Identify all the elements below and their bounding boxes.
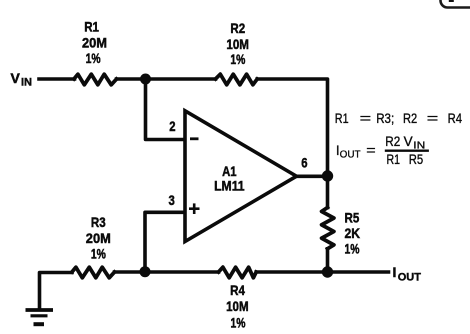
resistor R2 tolerance label 1% — [230, 51, 245, 67]
svg-text:R5: R5 — [409, 152, 423, 167]
node bottom output — [322, 266, 333, 277]
resistor R5 tolerance label 1% — [345, 241, 360, 257]
wire op-amp output — [297, 175, 328, 179]
node output — [322, 170, 333, 181]
resistor R4 reference label — [230, 282, 245, 298]
svg-text:OUT: OUT — [340, 150, 361, 161]
wire ground to R3 — [40, 273, 73, 310]
resistor R2 value label 10M — [226, 36, 249, 52]
wire R1 to R2 — [117, 77, 216, 81]
svg-text:3: 3 — [169, 192, 175, 208]
svg-text:2K: 2K — [345, 225, 361, 241]
resistor R2 — [216, 74, 258, 85]
svg-text:=: = — [427, 111, 439, 126]
svg-text:20M: 20M — [86, 230, 111, 246]
svg-text:1%: 1% — [231, 315, 246, 331]
svg-text:=: = — [360, 111, 372, 126]
resistor R5 value label 2K — [345, 225, 361, 241]
wire Iout lead — [328, 270, 389, 274]
svg-text:=: = — [366, 143, 376, 158]
svg-text:R2: R2 — [230, 20, 245, 36]
node Iout label — [393, 264, 422, 284]
wire R5 to bottom node — [326, 249, 330, 272]
wire R2 to output node — [257, 79, 327, 171]
svg-text:R2: R2 — [385, 134, 400, 149]
resistor R5 reference label — [345, 210, 360, 226]
svg-text:1%: 1% — [345, 241, 360, 257]
svg-text:IN: IN — [21, 77, 32, 89]
resistor R3 value label 20M — [86, 230, 111, 246]
svg-text:R4: R4 — [448, 111, 463, 126]
resistor R5 — [322, 208, 334, 249]
op-amp A1 reference label — [222, 163, 237, 179]
equation R1 = R3; R2 = R4 — [335, 111, 463, 126]
resistor R3 tolerance label 1% — [91, 246, 106, 262]
op-amp pin 2 label — [169, 118, 175, 134]
resistor R3 — [72, 267, 115, 278]
svg-text:6: 6 — [301, 155, 307, 171]
op-amp value label LM11 — [214, 178, 245, 194]
wire non-inverting input — [145, 212, 184, 271]
node junction R1-R2 — [140, 74, 151, 85]
svg-text:20M: 20M — [82, 35, 107, 51]
resistor R1 value label 20M — [82, 35, 107, 51]
svg-text:1%: 1% — [91, 246, 106, 262]
op-amp minus sign — [190, 137, 199, 140]
corner figure box — [441, 0, 470, 8]
wire inverting input — [146, 79, 185, 140]
resistor R1 reference label — [84, 19, 99, 35]
svg-text:V: V — [11, 70, 21, 86]
svg-text:R3: R3 — [91, 214, 106, 230]
op-amp pin 6 label — [301, 155, 307, 171]
svg-text:10M: 10M — [226, 298, 249, 314]
op-amp plus sign — [189, 203, 200, 214]
svg-text:R2: R2 — [403, 111, 417, 126]
svg-text:R3;: R3; — [376, 111, 394, 126]
wire Vin lead — [39, 77, 75, 81]
svg-text:R5: R5 — [345, 210, 360, 226]
op-amp A1 — [185, 111, 297, 242]
svg-text:R1: R1 — [387, 152, 401, 167]
svg-text:2: 2 — [169, 118, 175, 134]
wire R3 to R4 — [115, 270, 219, 274]
node Vin label — [11, 70, 33, 89]
resistor R4 value label 10M — [226, 298, 249, 314]
svg-text:R1: R1 — [84, 19, 99, 35]
op-amp pin 3 label — [169, 192, 175, 208]
wire R4 to bottom node — [256, 270, 327, 274]
svg-text:R4: R4 — [230, 282, 245, 298]
svg-text:1%: 1% — [230, 51, 245, 67]
ground — [26, 310, 54, 324]
resistor R1 tolerance label 1% — [86, 50, 101, 66]
node junction R3-R4 — [140, 266, 151, 277]
resistor R2 reference label — [230, 20, 245, 36]
resistor R4 — [219, 267, 257, 278]
wire node to R5 — [326, 176, 330, 208]
svg-text:OUT: OUT — [398, 272, 422, 284]
resistor R3 reference label — [91, 214, 106, 230]
equation Iout = R2 Vin / R1 R5 — [336, 134, 429, 167]
resistor R4 tolerance label 1% — [231, 315, 246, 331]
svg-text:1%: 1% — [86, 50, 101, 66]
svg-text:V: V — [404, 134, 413, 149]
svg-text:R1: R1 — [335, 111, 349, 126]
svg-text:LM11: LM11 — [214, 178, 245, 194]
svg-text:10M: 10M — [226, 36, 249, 52]
resistor R1 — [74, 74, 117, 85]
svg-text:I: I — [393, 264, 397, 280]
